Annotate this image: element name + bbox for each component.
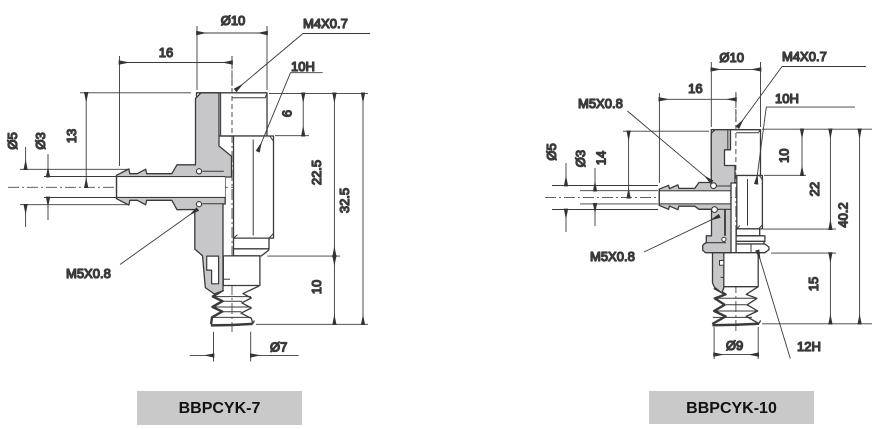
svg-text:32.5: 32.5 xyxy=(337,188,352,213)
leader M5X0.8 left xyxy=(120,210,197,265)
label box BBPCYK-7 xyxy=(137,391,302,425)
buffer notch white xyxy=(207,256,219,284)
svg-text:40.2: 40.2 xyxy=(836,202,851,227)
neck ring xyxy=(234,238,270,249)
svg-text:BBPCYK-7: BBPCYK-7 xyxy=(179,400,261,417)
svg-text:Ø5: Ø5 xyxy=(544,143,559,160)
right side extension lines r xyxy=(762,129,872,324)
svg-text:10H: 10H xyxy=(291,59,315,74)
flange disc facet line r xyxy=(750,244,752,253)
dim Ø10 top xyxy=(197,26,267,90)
svg-text:10: 10 xyxy=(777,149,792,163)
thread joint lines left xyxy=(202,171,223,204)
bellows left wall r xyxy=(712,288,725,324)
hex right xyxy=(731,176,762,229)
dim Ø5 xyxy=(20,147,128,227)
leader 10H xyxy=(258,73,323,151)
centerline horizontal left xyxy=(8,186,238,188)
cap thread line r xyxy=(727,130,729,149)
dim Ø7 bottom xyxy=(190,332,299,362)
flange band mid right xyxy=(736,241,764,244)
centerline vertical left xyxy=(231,56,233,332)
flange main disc right xyxy=(736,244,769,253)
bellows right profile xyxy=(241,286,259,324)
tube tip edge r xyxy=(658,189,660,206)
svg-text:M5X0.8: M5X0.8 xyxy=(590,249,635,264)
svg-text:6: 6 xyxy=(280,110,295,117)
dim Ø9 bottom r xyxy=(714,327,758,359)
flange joint relief circle r xyxy=(722,237,726,241)
svg-text:BBPCYK-10: BBPCYK-10 xyxy=(686,400,777,417)
dim 15 r xyxy=(829,253,831,324)
thread relief circle top xyxy=(196,169,201,174)
foot flange line r xyxy=(705,242,726,244)
cup body right xyxy=(716,253,758,287)
bore cavity left xyxy=(117,177,225,197)
hex body external xyxy=(219,136,274,238)
svg-text:10: 10 xyxy=(309,280,324,294)
svg-text:10H: 10H xyxy=(775,91,799,106)
dim 16 left xyxy=(120,56,233,166)
svg-text:13: 13 xyxy=(64,129,79,143)
gray lower column r xyxy=(713,253,724,293)
bellows fold lines xyxy=(212,297,251,318)
svg-text:M4X0.7: M4X0.7 xyxy=(303,16,348,31)
cap right xyxy=(711,130,760,176)
bore cavity right xyxy=(660,191,730,203)
svg-text:M4X0.7: M4X0.7 xyxy=(782,49,827,64)
thread relief circle bottom r xyxy=(712,207,718,213)
dim Ø3 xyxy=(44,154,116,220)
svg-text:M5X0.8: M5X0.8 xyxy=(66,266,111,281)
dim Ø10 top r xyxy=(711,62,760,127)
dim 14 r xyxy=(623,131,709,197)
leader M5X0.8 top r xyxy=(627,111,711,182)
right side extension lines xyxy=(256,93,368,324)
section strip line r xyxy=(724,209,726,236)
centerline horizontal right xyxy=(545,197,742,199)
svg-text:M5X0.8: M5X0.8 xyxy=(578,96,623,111)
gray body silhouette right xyxy=(659,130,735,253)
lip curl right xyxy=(253,321,255,324)
svg-text:Ø3: Ø3 xyxy=(33,132,48,149)
dim 22 r xyxy=(829,129,831,229)
dim 22.5 xyxy=(333,93,335,256)
dim 6 xyxy=(302,93,304,135)
svg-text:16: 16 xyxy=(688,81,702,96)
leader 12H r xyxy=(758,251,791,359)
bellows fold lines r xyxy=(713,298,758,317)
dim 40.2 r xyxy=(859,129,861,324)
svg-text:12H: 12H xyxy=(797,339,821,354)
leader M5X0.8 bottom r xyxy=(644,216,719,252)
svg-text:Ø3: Ø3 xyxy=(573,150,588,167)
cup holder body xyxy=(223,256,260,286)
neck right xyxy=(736,229,759,236)
svg-text:22: 22 xyxy=(807,182,822,196)
thread joint line r xyxy=(716,185,730,187)
svg-text:15: 15 xyxy=(806,277,821,291)
cap thread line left xyxy=(220,93,222,135)
svg-text:Ø5: Ø5 xyxy=(5,132,20,149)
bore lines r xyxy=(659,191,731,204)
leader M4X0.7 r xyxy=(738,67,866,128)
centerline vertical right xyxy=(735,92,737,332)
svg-text:16: 16 xyxy=(159,45,173,60)
leader 10H r xyxy=(756,107,855,183)
dim 10 r xyxy=(801,129,803,175)
lower column notch r xyxy=(720,261,724,266)
gray body silhouette left xyxy=(117,93,232,294)
svg-text:22.5: 22.5 xyxy=(309,160,324,185)
strip tick r xyxy=(721,276,724,278)
dim 32.5 xyxy=(362,93,364,324)
cap top view U-half xyxy=(197,93,268,136)
thread relief circle top r xyxy=(711,183,717,189)
tube tip edge left xyxy=(116,175,118,198)
dim 16 r xyxy=(659,93,736,183)
svg-text:Ø9: Ø9 xyxy=(726,338,743,353)
svg-text:Ø7: Ø7 xyxy=(270,339,287,354)
bore lines left xyxy=(117,177,226,198)
leader M4X0.7 xyxy=(236,34,370,91)
dim 13 xyxy=(80,93,191,188)
svg-text:14: 14 xyxy=(594,151,609,165)
svg-text:Ø10: Ø10 xyxy=(221,13,246,28)
svg-text:Ø10: Ø10 xyxy=(719,50,744,65)
dim Ø3 r xyxy=(580,168,658,226)
suction lip r xyxy=(712,324,759,326)
label box BBPCYK-10 xyxy=(649,391,814,424)
flange xyxy=(234,249,269,256)
dim 10 lower xyxy=(333,256,335,324)
bellows left wall sectioned xyxy=(211,290,223,324)
suction lip xyxy=(211,324,253,326)
bellows right profile r xyxy=(746,287,759,324)
collar bottom edge line r xyxy=(699,208,731,210)
flange band upper right xyxy=(736,236,765,242)
thread relief circle bottom xyxy=(196,202,201,207)
dim Ø5 r xyxy=(552,163,658,232)
